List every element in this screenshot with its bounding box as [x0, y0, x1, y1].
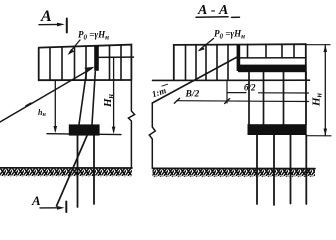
pile 2 right	[273, 135, 275, 205]
ext line x227	[226, 80, 228, 103]
hatch line	[227, 45, 229, 81]
hatch short	[265, 44, 267, 57]
ledge top line right	[236, 57, 306, 59]
svg-text:А - А: А - А	[197, 3, 228, 18]
svg-text:А: А	[31, 193, 41, 208]
hatch line	[185, 45, 187, 80]
band right edge	[305, 44, 307, 80]
dim line Hn left	[113, 57, 115, 131]
hatch short	[293, 44, 295, 58]
upper cap bar right diagram	[238, 65, 307, 73]
column line 1 above cap	[79, 72, 87, 125]
step vertical thick	[237, 45, 241, 71]
hatch line	[49, 47, 51, 80]
svg-text:В/2: В/2	[185, 90, 200, 100]
section marker A bottom: arrowhead	[57, 206, 65, 210]
dim arrow down	[54, 126, 58, 133]
pile 4 right	[305, 135, 307, 204]
half-arrow tick on slope	[26, 103, 31, 106]
section marker A top: tick	[66, 19, 68, 33]
cap level line	[47, 133, 121, 136]
slant tick at 227	[225, 99, 230, 104]
leader arrowhead right	[198, 46, 205, 51]
ground line left	[0, 167, 132, 169]
svg-text:А: А	[40, 8, 52, 25]
band bottom edge right diagram	[153, 79, 310, 81]
section marker A top: arrowhead	[57, 23, 65, 27]
ground hatch right	[153, 169, 316, 177]
hatch line	[216, 45, 218, 81]
slope line right	[152, 57, 238, 104]
pile 1 left	[77, 136, 79, 207]
dim line b/2	[227, 92, 309, 94]
hatch line	[195, 45, 197, 80]
leader arrowhead	[68, 49, 75, 55]
column 3 right	[283, 72, 285, 124]
Hn arrow down	[324, 129, 328, 136]
hatch line	[74, 46, 76, 80]
section marker A top: arrow line	[39, 23, 61, 25]
ground hatch left	[0, 168, 132, 176]
title underline	[196, 16, 240, 19]
column 4 right	[305, 72, 307, 124]
thick step bar in band	[94, 46, 99, 71]
break line left with kink	[128, 80, 134, 168]
dim Hn arrow down	[112, 127, 116, 134]
hatch line	[85, 46, 87, 80]
dim line h left	[54, 80, 56, 131]
ground line right	[153, 167, 316, 169]
inclined pile left	[57, 136, 88, 206]
lower cap bar right diagram	[248, 124, 307, 135]
hatch line	[61, 47, 63, 80]
hatch short	[281, 44, 283, 58]
dim line Hn right	[324, 45, 326, 136]
section marker A bottom: tick	[65, 202, 67, 213]
slant tick B/2 left	[174, 98, 179, 103]
column line 2 above cap	[92, 72, 95, 125]
hatch line	[205, 45, 207, 80]
label 1:m	[151, 84, 171, 99]
pile 3 right	[290, 135, 292, 204]
hatch line	[120, 45, 122, 80]
load band left outline	[39, 45, 132, 81]
cap bottom ext line	[307, 135, 332, 137]
hatch short	[247, 44, 249, 57]
svg-text:б/2: б/2	[244, 83, 256, 93]
section marker A bottom: arrow line	[40, 207, 61, 209]
long slope leader line	[0, 69, 92, 123]
column 2 right	[263, 72, 265, 124]
column 1 right	[248, 72, 250, 124]
pile cap bar left diagram	[69, 124, 100, 135]
Hn arrow up	[324, 45, 328, 52]
pile 1 right	[256, 135, 258, 204]
dim line B/2	[177, 100, 309, 103]
load band right outline	[174, 44, 306, 80]
leader from P0 left	[70, 40, 81, 53]
step ledge line	[97, 56, 134, 58]
pile 2 left	[93, 136, 95, 204]
break line right with kink	[149, 103, 155, 168]
slope leader arrowhead	[85, 67, 95, 73]
leader from P0 right	[200, 39, 214, 50]
hatch line	[109, 45, 111, 80]
Hn ext top right	[306, 44, 330, 46]
